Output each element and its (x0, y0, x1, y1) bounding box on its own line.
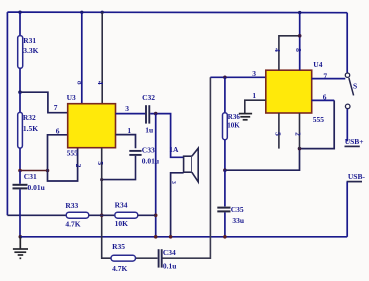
capacitor C34 (159, 249, 162, 267)
svg-text:3: 3 (252, 69, 256, 78)
wire U3 pin5 vertical down to R35 (102, 148, 111, 258)
svg-text:0.01u: 0.01u (28, 183, 45, 192)
svg-text:3: 3 (125, 104, 129, 113)
svg-text:1: 1 (252, 91, 256, 100)
node dot R36/C35 junction (223, 168, 227, 172)
wire R32 top lead (19, 92, 21, 112)
ground symbol left (13, 237, 28, 258)
wire U4 pin8 vertical from rail (299, 13, 301, 71)
resistor R35 (111, 255, 136, 261)
wire pin7 path to U3 (20, 92, 68, 113)
wire C35 top lead (224, 170, 226, 206)
svg-text:R31: R31 (23, 36, 36, 45)
node dot C35 at ground rail (223, 235, 227, 239)
wire R36 bottom lead (224, 140, 226, 171)
wire U4 pin5 dangling (278, 113, 280, 149)
wire C31 bottom lead to ground rail (19, 189, 21, 237)
wire R32 bottom lead (19, 148, 21, 170)
svg-text:555: 555 (313, 115, 325, 124)
resistor R31 (18, 36, 23, 69)
svg-text:R35: R35 (112, 242, 125, 251)
resistor R32 (18, 112, 23, 148)
node dot pin3/R36 junction (223, 76, 227, 80)
svg-text:10K: 10K (227, 122, 240, 130)
svg-text:1A: 1A (169, 145, 179, 154)
svg-text:4.7K: 4.7K (65, 220, 80, 229)
svg-text:10K: 10K (115, 219, 129, 228)
wire riser from pin3 node down to ground rail (155, 114, 157, 237)
resistor R36 (223, 113, 228, 140)
node dot ground corner (19, 235, 23, 239)
svg-text:C35: C35 (231, 205, 244, 214)
svg-text:USB+: USB+ (345, 137, 364, 146)
svg-text:6: 6 (56, 127, 60, 136)
svg-text:7: 7 (323, 71, 327, 80)
svg-text:555: 555 (67, 149, 79, 158)
svg-text:3.3K: 3.3K (23, 46, 38, 55)
wire top VCC rail (7, 11, 347, 14)
wire C32 right to speaker riser corner (150, 114, 183, 158)
svg-text:U4: U4 (313, 60, 322, 69)
wire switch to USB+ terminal (346, 109, 348, 142)
wire USB- down to ground rail (346, 182, 348, 237)
svg-text:3: 3 (170, 181, 176, 184)
svg-text:R34: R34 (115, 201, 128, 210)
node dot R32/C31 junction (18, 169, 22, 173)
svg-text:7: 7 (54, 103, 58, 112)
wire R34 to riser node (138, 214, 156, 216)
op-amp U3 555 timer body (68, 104, 116, 148)
wire U3 pin4 vertical (101, 12, 103, 103)
svg-text:5: 5 (96, 161, 105, 165)
node dot riser at R34 row (154, 214, 158, 218)
node dot riser at ground rail (154, 235, 158, 239)
svg-text:S: S (353, 82, 357, 91)
capacitor C32 (146, 105, 149, 123)
svg-text:5: 5 (274, 132, 283, 136)
svg-text:8: 8 (294, 48, 303, 52)
svg-text:1: 1 (127, 126, 131, 135)
wire R33 feed from left border (7, 214, 66, 216)
svg-text:4.7K: 4.7K (112, 264, 127, 273)
node dot R31/R32 junction (18, 90, 22, 94)
node dot rail U3 pin4 (101, 11, 104, 14)
svg-text:R36: R36 (228, 113, 241, 121)
svg-text:33u: 33u (232, 216, 244, 225)
wire R31 top lead (19, 12, 21, 35)
svg-text:C32: C32 (142, 93, 155, 102)
svg-text:R33: R33 (65, 201, 78, 210)
wire C31 top lead (19, 171, 21, 184)
wire U4 pin2 vertical (299, 113, 301, 149)
node dot pin5 line at R34 row (100, 214, 104, 218)
wire U4 pin4 bend to pin8 (279, 36, 300, 70)
node dot pin4/pin8 join (298, 34, 302, 38)
wire switch feed from VCC rail (346, 13, 348, 73)
capacitor C35 (217, 208, 230, 212)
switch S lever (349, 78, 354, 95)
wire U4 pin3 row (210, 76, 265, 78)
resistor R34 (115, 212, 138, 218)
svg-text:0.01u: 0.01u (142, 156, 159, 165)
svg-text:C33: C33 (142, 145, 155, 154)
node dot speaker return at rail (169, 235, 173, 239)
switch S bottom contact (345, 104, 350, 109)
speaker LS body (184, 148, 199, 182)
wire R33 to R34 (89, 214, 115, 216)
svg-text:8: 8 (76, 81, 85, 85)
svg-text:U3: U3 (67, 93, 76, 102)
wire C33 bottom to pin5 line (102, 156, 136, 180)
svg-text:4: 4 (96, 81, 105, 85)
wire left border from VCC down to R33 row (6, 12, 8, 215)
node dot C33 return on pin5 line (100, 178, 103, 181)
svg-text:2: 2 (74, 164, 83, 168)
wire C35 bottom lead to rail (224, 212, 226, 236)
wire R35 row with riser to U4 pin3 (136, 77, 211, 258)
switch S top contact (345, 73, 349, 77)
wire R32 junction to pin6 riser (20, 170, 48, 172)
node dot rail U3 pin8 (80, 11, 83, 14)
wire U3 pin6 and pin2 loop (48, 135, 78, 181)
wire R36 node to U4 pin2/pin6 (225, 100, 334, 170)
wire U3 pin1 row to C33 (116, 135, 136, 149)
node dot C32 output junction (154, 112, 158, 116)
wire R31 bottom lead to node (19, 68, 21, 92)
wire U4 pin6 row (312, 99, 335, 101)
svg-text:6: 6 (323, 92, 327, 101)
wire U3 pin8 vertical (81, 12, 83, 103)
node USB- terminal bar (347, 181, 362, 183)
svg-text:2: 2 (293, 132, 302, 136)
capacitor C31 (13, 185, 28, 189)
svg-text:C34: C34 (163, 248, 176, 257)
wire U4 pin1 to ground (245, 100, 266, 113)
svg-text:1u: 1u (145, 126, 153, 135)
wire U3 pin3 row to C32 (116, 113, 146, 115)
svg-text:C31: C31 (24, 172, 37, 181)
capacitor C33 (129, 151, 141, 155)
svg-text:R32: R32 (23, 113, 36, 122)
svg-text:0.1u: 0.1u (163, 261, 177, 270)
pin label 3 U4 line continues; wire U4 pin7 row to switch (312, 78, 346, 80)
node dot U4 pin2 junction (298, 147, 302, 151)
node dot pin6 riser (46, 169, 50, 173)
wire speaker bottom to ground rail (171, 173, 184, 237)
svg-text:1.5K: 1.5K (23, 124, 38, 133)
svg-text:4: 4 (273, 48, 282, 52)
wire ground rail (20, 236, 347, 238)
resistor R33 (66, 212, 89, 218)
node dot rail U4 pin8 (298, 11, 301, 14)
wire R36 top lead (224, 77, 226, 112)
node dot rail at R31 line (18, 11, 21, 14)
svg-text:USB-: USB- (348, 172, 366, 181)
op-amp U4 555 timer body (266, 70, 312, 113)
ground symbol U4 (239, 114, 252, 120)
node USB+ terminal bar (345, 145, 360, 147)
